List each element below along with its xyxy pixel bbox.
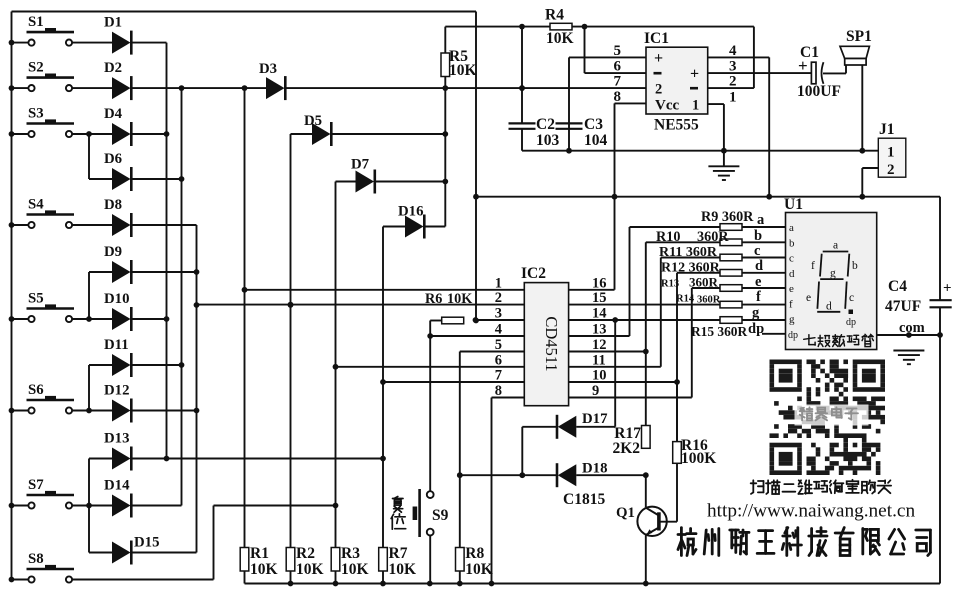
svg-text:c: c xyxy=(754,243,761,259)
svg-text:S2: S2 xyxy=(28,60,44,76)
svg-text:10K: 10K xyxy=(465,561,493,578)
svg-text:D10: D10 xyxy=(104,291,129,307)
svg-text:4: 4 xyxy=(495,322,502,338)
svg-text:10K: 10K xyxy=(546,30,574,47)
svg-text:b: b xyxy=(852,260,858,272)
svg-text:2K2: 2K2 xyxy=(612,440,640,457)
svg-text:C2: C2 xyxy=(536,116,555,133)
svg-text:11: 11 xyxy=(592,352,606,368)
svg-text:D11: D11 xyxy=(104,337,129,353)
svg-text:104: 104 xyxy=(584,132,608,149)
svg-text:C4: C4 xyxy=(888,278,907,295)
svg-text:13: 13 xyxy=(592,322,607,338)
svg-text:6: 6 xyxy=(495,352,502,368)
svg-text:g: g xyxy=(789,314,795,326)
svg-text:e: e xyxy=(789,283,794,295)
svg-text:+: + xyxy=(798,56,808,75)
svg-text:c: c xyxy=(849,292,854,304)
svg-text:10K: 10K xyxy=(341,561,369,578)
svg-text:8: 8 xyxy=(614,89,622,105)
svg-text:S1: S1 xyxy=(28,14,44,30)
svg-text:NE555: NE555 xyxy=(654,117,699,134)
svg-text:+: + xyxy=(690,66,699,83)
svg-text:S9: S9 xyxy=(432,507,449,524)
svg-text:g: g xyxy=(830,268,836,280)
svg-text:360R: 360R xyxy=(689,275,719,290)
svg-text:1: 1 xyxy=(495,275,502,291)
svg-text:D1: D1 xyxy=(104,15,122,31)
svg-text:100UF: 100UF xyxy=(797,83,841,100)
svg-text:R13: R13 xyxy=(661,279,679,290)
svg-text:4: 4 xyxy=(729,43,737,59)
svg-text:3: 3 xyxy=(729,59,737,75)
svg-text:14: 14 xyxy=(592,306,607,322)
svg-text:R15 360R: R15 360R xyxy=(691,324,747,339)
svg-text:3: 3 xyxy=(495,306,502,322)
svg-text:D2: D2 xyxy=(104,60,122,76)
svg-text:10K: 10K xyxy=(447,291,472,307)
svg-text:D8: D8 xyxy=(104,197,122,213)
svg-text:com: com xyxy=(899,320,925,336)
svg-text:D13: D13 xyxy=(104,431,129,447)
svg-text:SP1: SP1 xyxy=(846,28,872,45)
svg-text:dp: dp xyxy=(846,317,856,328)
svg-text:R6: R6 xyxy=(425,291,442,307)
svg-text:R3: R3 xyxy=(341,545,360,562)
svg-text:S3: S3 xyxy=(28,106,44,122)
svg-text:10K: 10K xyxy=(389,561,417,578)
svg-text:R14: R14 xyxy=(676,294,695,305)
svg-text:S7: S7 xyxy=(28,477,44,493)
svg-text:C3: C3 xyxy=(584,116,603,133)
svg-text:7: 7 xyxy=(495,368,502,384)
svg-text:b: b xyxy=(789,237,795,249)
svg-text:100K: 100K xyxy=(681,450,716,467)
svg-text:+: + xyxy=(943,281,952,297)
svg-text:+: + xyxy=(654,50,663,67)
svg-text:R2: R2 xyxy=(296,545,315,562)
svg-text:IC1: IC1 xyxy=(644,30,669,47)
svg-text:2: 2 xyxy=(729,74,737,90)
svg-text:R12 360R: R12 360R xyxy=(661,261,721,276)
svg-text:10K: 10K xyxy=(250,561,278,578)
svg-text:S6: S6 xyxy=(28,382,44,398)
svg-text:a: a xyxy=(789,222,794,234)
svg-text:R9 360R: R9 360R xyxy=(701,209,754,225)
svg-text:10K: 10K xyxy=(296,561,324,578)
svg-text:f: f xyxy=(811,260,815,272)
svg-text:360R: 360R xyxy=(697,229,729,245)
svg-text:Q1: Q1 xyxy=(616,505,635,521)
svg-text:10: 10 xyxy=(592,368,607,384)
svg-text:C1815: C1815 xyxy=(563,491,605,508)
svg-text:16: 16 xyxy=(592,275,607,291)
svg-text:c: c xyxy=(789,253,794,265)
svg-text:dp: dp xyxy=(748,321,764,337)
svg-text:7: 7 xyxy=(614,74,622,90)
svg-text:d: d xyxy=(826,301,832,313)
svg-text:6: 6 xyxy=(614,59,622,75)
svg-text:e: e xyxy=(806,292,811,304)
svg-text:http://www.naiwang.net.cn: http://www.naiwang.net.cn xyxy=(707,501,915,522)
svg-text:a: a xyxy=(833,240,838,252)
svg-text:f: f xyxy=(756,289,761,305)
svg-text:R7: R7 xyxy=(389,545,408,562)
svg-text:1: 1 xyxy=(729,90,737,106)
svg-text:IC2: IC2 xyxy=(521,265,546,282)
svg-text:D9: D9 xyxy=(104,244,122,260)
svg-text:15: 15 xyxy=(592,290,607,306)
svg-text:103: 103 xyxy=(536,132,560,149)
svg-text:5: 5 xyxy=(495,337,502,353)
svg-text:U1: U1 xyxy=(784,196,803,213)
svg-text:e: e xyxy=(755,274,762,290)
svg-text:1: 1 xyxy=(887,145,895,161)
svg-text:2: 2 xyxy=(655,82,662,98)
svg-text:D18: D18 xyxy=(582,461,607,477)
svg-text:R10: R10 xyxy=(656,229,680,245)
svg-text:8: 8 xyxy=(495,383,502,399)
svg-text:Vcc: Vcc xyxy=(655,98,679,114)
svg-text:D16: D16 xyxy=(398,204,423,220)
svg-text:b: b xyxy=(754,228,762,244)
svg-text:g: g xyxy=(752,305,760,321)
svg-text:f: f xyxy=(789,298,793,310)
svg-text:d: d xyxy=(789,268,795,280)
svg-text:12: 12 xyxy=(592,337,607,353)
svg-text:R1: R1 xyxy=(250,545,269,562)
svg-text:D6: D6 xyxy=(104,151,122,167)
svg-text:R4: R4 xyxy=(545,7,564,24)
svg-text:S5: S5 xyxy=(28,291,44,307)
svg-text:R8: R8 xyxy=(465,545,484,562)
svg-text:S8: S8 xyxy=(28,551,44,567)
svg-text:1: 1 xyxy=(692,98,699,114)
svg-text:J1: J1 xyxy=(879,121,895,138)
svg-text:5: 5 xyxy=(614,43,622,59)
svg-text:D7: D7 xyxy=(351,157,370,173)
svg-text:360R: 360R xyxy=(697,295,721,306)
svg-text:dp: dp xyxy=(788,330,798,341)
svg-text:R11 360R: R11 360R xyxy=(659,245,718,260)
svg-text:10K: 10K xyxy=(449,62,477,79)
svg-text:2: 2 xyxy=(887,162,895,178)
svg-text:D15: D15 xyxy=(134,535,159,551)
svg-text:D14: D14 xyxy=(104,478,130,494)
svg-text:S4: S4 xyxy=(28,197,44,213)
svg-text:D4: D4 xyxy=(104,106,123,122)
svg-text:9: 9 xyxy=(592,383,599,399)
svg-text:D17: D17 xyxy=(582,411,608,427)
svg-text:a: a xyxy=(757,212,765,228)
svg-text:d: d xyxy=(755,258,763,274)
svg-text:D3: D3 xyxy=(259,61,277,77)
svg-text:2: 2 xyxy=(495,290,502,306)
svg-text:CD4511: CD4511 xyxy=(542,316,561,371)
svg-text:D12: D12 xyxy=(104,383,129,399)
svg-text:47UF: 47UF xyxy=(885,298,921,315)
